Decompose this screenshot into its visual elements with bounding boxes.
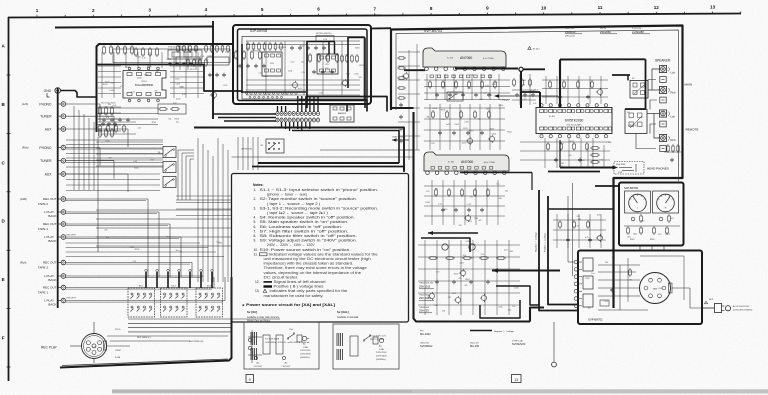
wire bridge B9708 to B9703 bbox=[371, 27, 391, 29]
input terminal AUX Rch bbox=[45, 172, 66, 177]
svg-text:S8: Subsonic filter switch in: S8: Subsonic filter switch in “off” posi… bbox=[260, 234, 358, 238]
svg-text:VR101(L) VR102(R): VR101(L) VR102(R) bbox=[168, 47, 185, 49]
svg-text:PLUG SIDE CON-: PLUG SIDE CON- bbox=[370, 336, 387, 338]
svg-text:C410: C410 bbox=[344, 55, 349, 57]
thick wire regulator loop 1 bbox=[421, 238, 470, 252]
svg-text:9: 9 bbox=[249, 378, 251, 382]
svg-text:10u: 10u bbox=[179, 86, 182, 88]
channel brace labels tape bbox=[20, 197, 76, 300]
svg-text:120V/110V: 120V/110V bbox=[376, 352, 387, 354]
svg-text:0.01: 0.01 bbox=[298, 88, 302, 90]
svg-text:IC101: IC101 bbox=[141, 81, 147, 83]
svg-text:C105: C105 bbox=[223, 85, 228, 87]
svg-text:R502: R502 bbox=[300, 45, 305, 47]
svg-text:2SA / 53: 2SA / 53 bbox=[419, 309, 429, 313]
board-to-board connector CN1 bbox=[276, 112, 320, 123]
svg-text:R502: R502 bbox=[359, 65, 364, 67]
svg-text:2.2k: 2.2k bbox=[597, 214, 601, 216]
svg-text:MA-150: MA-150 bbox=[470, 344, 480, 348]
svg-text:C105: C105 bbox=[604, 301, 609, 303]
svg-text:TAPE 1: TAPE 1 bbox=[38, 227, 48, 231]
svg-text:BACK: BACK bbox=[48, 278, 56, 282]
svg-text:13: 13 bbox=[514, 378, 518, 382]
bus wire tape 2 bbox=[252, 167, 404, 173]
left board bottom edge second line bbox=[62, 359, 228, 366]
svg-text:TAPE 1: TAPE 1 bbox=[38, 290, 48, 294]
svg-text:C105: C105 bbox=[463, 128, 468, 130]
B9708 top bus bbox=[246, 33, 360, 45]
XAL AC line text bbox=[376, 345, 387, 362]
IC101 phono equalizer bbox=[123, 67, 166, 102]
signal arrow line Lch bbox=[494, 94, 558, 98]
bus wire tape 1 bbox=[258, 162, 399, 164]
supply rail positive bbox=[548, 196, 578, 305]
terminal GND bbox=[44, 88, 61, 97]
main preamp board outline bottom bbox=[60, 277, 232, 368]
svg-text:1u/50: 1u/50 bbox=[109, 90, 114, 92]
svg-text:33k: 33k bbox=[168, 119, 171, 121]
svg-text:47k: 47k bbox=[458, 278, 461, 280]
svg-text:2.2k: 2.2k bbox=[608, 142, 612, 144]
wire main thick top horizontal bbox=[55, 27, 213, 28]
tape terminal REC OUT TAPE 2 5 bbox=[38, 260, 66, 269]
svg-text:47k: 47k bbox=[463, 255, 466, 257]
svg-text:47k: 47k bbox=[629, 279, 632, 281]
svg-text:0.22: 0.22 bbox=[291, 61, 295, 63]
svg-text:13: 13 bbox=[710, 4, 716, 9]
svg-text:F: F bbox=[2, 336, 5, 341]
feedback network box bbox=[158, 104, 186, 114]
svg-text:4.: 4. bbox=[254, 216, 257, 220]
svg-text:220: 220 bbox=[577, 216, 580, 218]
scanner shadow bottom bbox=[112, 389, 768, 393]
svg-text:470: 470 bbox=[627, 237, 630, 239]
svg-text:WHT WIRE (R): WHT WIRE (R) bbox=[189, 341, 203, 343]
svg-text:C301: C301 bbox=[471, 244, 476, 246]
phono network resistors bbox=[103, 45, 159, 57]
svg-text:33k: 33k bbox=[499, 198, 502, 200]
thick wire to S5 relay bbox=[612, 75, 630, 80]
svg-text:R901: R901 bbox=[630, 239, 635, 241]
svg-text:0.01: 0.01 bbox=[134, 161, 138, 163]
svg-text:MUTING (MM.DD): MUTING (MM.DD) bbox=[316, 33, 332, 35]
svg-text:1u/50: 1u/50 bbox=[176, 99, 181, 101]
svg-text:8: 8 bbox=[430, 6, 433, 11]
svg-text:470: 470 bbox=[568, 155, 571, 157]
XA AC line text bbox=[300, 343, 311, 360]
svg-text:240V ← 220V ← 110V ← 120V: 240V ← 220V ← 110V ← 120V bbox=[267, 243, 315, 247]
svg-text:indicates that only parts spec: indicates that only parts specified for … bbox=[270, 289, 348, 293]
svg-text:S4: Remote speaker switch in: S4: Remote speaker switch in “off” posit… bbox=[260, 216, 356, 220]
svg-text:manufacturer be used for safet: manufacturer be used for safety. bbox=[264, 294, 324, 298]
svg-text:2SC2060: 2SC2060 bbox=[600, 30, 611, 34]
subsonic filter parts bbox=[309, 53, 339, 74]
tone circuit field mid bbox=[424, 104, 505, 150]
svg-text:R205: R205 bbox=[103, 84, 108, 86]
meter M1 left bbox=[625, 191, 651, 213]
power board SVP-B9702 box bbox=[578, 251, 702, 325]
thick wire regulator loop 2 bbox=[480, 300, 520, 318]
XAL transformer T1 bbox=[337, 333, 358, 360]
svg-text:(Lch TONE): (Lch TONE) bbox=[483, 58, 494, 60]
svg-text:HEAD PHONES: HEAD PHONES bbox=[647, 167, 669, 171]
svg-text:6: 6 bbox=[317, 7, 320, 12]
thick rail under IC301 bbox=[404, 67, 545, 71]
meter M2 right bbox=[653, 191, 679, 213]
svg-text:BACK: BACK bbox=[48, 214, 56, 218]
svg-text:SJP-B9700: SJP-B9700 bbox=[624, 186, 639, 190]
board SJP-B9708 inner box bbox=[242, 37, 364, 100]
chassis ground drop wire bbox=[552, 322, 557, 367]
svg-text:4.7k: 4.7k bbox=[575, 225, 579, 227]
svg-text:R205: R205 bbox=[426, 202, 431, 204]
XA switch S10 bbox=[287, 329, 295, 339]
B9708 parts field bbox=[245, 41, 360, 98]
svg-text:9.: 9. bbox=[254, 239, 257, 243]
wires S1 to bus bbox=[178, 150, 194, 200]
svg-text:2.2k: 2.2k bbox=[444, 209, 448, 211]
bus wire upper 2 bbox=[299, 100, 367, 112]
svg-text:R502: R502 bbox=[666, 233, 671, 235]
svg-text:PLUG: PLUG bbox=[115, 329, 121, 331]
meter board SJP-B9700 box bbox=[619, 183, 684, 246]
transistor legend table bbox=[565, 28, 650, 38]
svg-text:RED WIRE (L): RED WIRE (L) bbox=[137, 337, 151, 339]
svg-text:1u/50: 1u/50 bbox=[446, 124, 451, 126]
plug side note text bbox=[370, 336, 387, 342]
wire tape loop nest bbox=[66, 199, 225, 302]
svg-text:2.2k: 2.2k bbox=[535, 89, 539, 91]
svg-text:R205: R205 bbox=[135, 249, 140, 251]
board SVP-B9703 left jog bbox=[391, 107, 414, 109]
tape terminal PLAY BACK 2 bbox=[44, 210, 66, 219]
ruler tick row top bbox=[37, 11, 741, 17]
svg-text:220: 220 bbox=[179, 251, 182, 253]
svg-text:0.01: 0.01 bbox=[225, 52, 229, 54]
svg-text:0.01: 0.01 bbox=[479, 99, 483, 101]
svg-text:R205: R205 bbox=[147, 66, 152, 68]
svg-text:4.7k: 4.7k bbox=[325, 68, 329, 70]
svg-text:220V/240V (50/60Hz): 220V/240V (50/60Hz) bbox=[733, 309, 753, 311]
svg-text:( tape 1▸2 ← source ← tape 2▸1: ( tape 1▸2 ← source ← tape 2▸1 ) bbox=[267, 211, 328, 215]
svg-text:Lch: Lch bbox=[671, 71, 676, 75]
svg-text:1u/50: 1u/50 bbox=[318, 93, 323, 95]
svg-text:Therefore, there may exist som: Therefore, there may exist some errors i… bbox=[264, 266, 368, 270]
svg-text:2-2SD288: 2-2SD288 bbox=[632, 30, 644, 34]
svg-text:10u: 10u bbox=[477, 118, 480, 120]
svg-text:0.22: 0.22 bbox=[246, 47, 250, 49]
svg-text:C301: C301 bbox=[658, 288, 663, 290]
switch S2 monitor bbox=[241, 139, 284, 153]
fuse and AC cord exit bbox=[702, 299, 714, 308]
for XA label bbox=[247, 310, 280, 322]
relay S4 remote speaker box bbox=[625, 110, 647, 134]
svg-text:2.2k: 2.2k bbox=[301, 72, 305, 74]
svg-text:220V/240V: 220V/240V bbox=[376, 356, 387, 358]
svg-text:4: 4 bbox=[205, 7, 208, 12]
svg-text:220V/240V: 220V/240V bbox=[300, 354, 311, 356]
left edge ticks bbox=[7, 75, 11, 367]
svg-text:4.7k: 4.7k bbox=[323, 39, 327, 41]
svg-text:(Rch): (Rch) bbox=[20, 261, 26, 265]
svg-text:C301: C301 bbox=[504, 100, 509, 102]
mid area horizontal wires bbox=[66, 142, 231, 216]
speaker terminal Lch REMOTE bbox=[660, 110, 676, 119]
svg-text:1u/50: 1u/50 bbox=[462, 142, 467, 144]
svg-text:2SA1123: 2SA1123 bbox=[565, 30, 576, 34]
bus wire upper 3 bbox=[306, 97, 387, 112]
svg-text:S3-2: S3-2 bbox=[171, 286, 176, 288]
svg-text:C410: C410 bbox=[129, 247, 134, 249]
svg-text:2SC1n: 2SC1n bbox=[600, 28, 606, 30]
svg-text:47k: 47k bbox=[191, 66, 194, 68]
svg-text:R:L SIGN WIRE: R:L SIGN WIRE bbox=[265, 339, 280, 341]
svg-text:AN7060: AN7060 bbox=[460, 56, 472, 60]
svg-text:C301: C301 bbox=[522, 80, 527, 82]
svg-text:0.22: 0.22 bbox=[259, 73, 263, 75]
pre IC401 parts bbox=[512, 74, 536, 105]
svg-text:2: 2 bbox=[92, 8, 95, 13]
tape terminal PLAY BACK 8 bbox=[44, 298, 66, 307]
svg-text:33k: 33k bbox=[426, 117, 429, 119]
IC351 pin squares bbox=[431, 167, 493, 170]
svg-text:33k: 33k bbox=[108, 104, 111, 106]
svg-text:R310: R310 bbox=[167, 59, 172, 61]
svg-text:R101: R101 bbox=[441, 109, 446, 111]
headphone jack bbox=[613, 162, 645, 175]
svg-text:470: 470 bbox=[641, 220, 644, 222]
wire gnd lead bbox=[61, 91, 97, 98]
supply rail negative bbox=[539, 190, 578, 311]
svg-text:4.7k: 4.7k bbox=[113, 105, 117, 107]
svg-text:R310: R310 bbox=[282, 47, 287, 49]
svg-text:100k: 100k bbox=[633, 234, 637, 236]
output inductor parts bbox=[588, 145, 604, 168]
svg-text:F601: F601 bbox=[709, 299, 713, 301]
svg-text:S10: Power source switch in “: S10: Power source switch in “on” positio… bbox=[260, 248, 351, 252]
svg-text:1.: 1. bbox=[254, 188, 257, 192]
IC muting 1 bbox=[262, 52, 282, 76]
svg-text:(REMOTE): (REMOTE) bbox=[628, 125, 637, 127]
svg-text:13.: 13. bbox=[255, 289, 260, 293]
svg-text:1u/50: 1u/50 bbox=[105, 140, 110, 142]
svg-text:RED WTH: RED WTH bbox=[67, 235, 77, 237]
svg-text:3.: 3. bbox=[254, 206, 257, 210]
svg-text:REC OUT: REC OUT bbox=[43, 261, 57, 265]
svg-text:SVOS2V20: SVOS2V20 bbox=[512, 342, 526, 346]
svg-text:TUNER: TUNER bbox=[40, 115, 52, 119]
bus wire upper 1 bbox=[292, 104, 347, 112]
wire thick phono feed bbox=[97, 65, 243, 92]
svg-text:R101: R101 bbox=[134, 167, 139, 169]
svg-text:R310: R310 bbox=[499, 105, 504, 107]
page number 13 box bbox=[512, 375, 522, 383]
svg-text:4.7k: 4.7k bbox=[469, 221, 473, 223]
svg-text:REC PLAY: REC PLAY bbox=[41, 346, 58, 350]
svg-text:2.2k: 2.2k bbox=[599, 159, 603, 161]
svg-text:R101: R101 bbox=[452, 293, 457, 295]
speaker minus lugs bbox=[660, 77, 666, 152]
svg-text:4.7k: 4.7k bbox=[120, 86, 124, 88]
input terminal TUNER Lch bbox=[40, 114, 66, 119]
IC351 AN7060 Rch bbox=[424, 152, 509, 175]
svg-text:2.2k: 2.2k bbox=[508, 310, 512, 312]
IC301 AN7060 Lch bbox=[423, 48, 506, 71]
svg-text:SVP-B9702: SVP-B9702 bbox=[588, 318, 603, 322]
svg-text:C105: C105 bbox=[488, 95, 493, 97]
svg-text:470: 470 bbox=[467, 88, 470, 90]
B9708 thick bus center bbox=[306, 41, 308, 108]
board part numbers bottom bbox=[420, 331, 526, 349]
board SJP-B9708 second box bbox=[238, 29, 368, 101]
svg-text:LEAD WIRE: LEAD WIRE bbox=[392, 136, 404, 139]
XA plug bbox=[297, 335, 309, 342]
IC301 pin squares bbox=[430, 75, 492, 78]
svg-text:C105: C105 bbox=[580, 160, 585, 162]
headphone feed wires bbox=[548, 140, 613, 172]
svg-text:S5: Main speaker switch in “o: S5: Main speaker switch in “on” position… bbox=[260, 220, 349, 224]
svg-text:220: 220 bbox=[358, 77, 361, 79]
svg-text:C301: C301 bbox=[175, 78, 180, 80]
connector feed lines left bbox=[213, 114, 276, 121]
svg-text:10u: 10u bbox=[496, 184, 499, 186]
svg-text:TR601, 603, 605: TR601, 603, 605 bbox=[419, 283, 433, 285]
svg-text:33k: 33k bbox=[434, 305, 437, 307]
svg-text:10u: 10u bbox=[176, 121, 179, 123]
transistor type labels bbox=[419, 283, 434, 313]
svg-text:R101: R101 bbox=[570, 141, 575, 143]
svg-text:47k: 47k bbox=[106, 237, 109, 239]
svg-text:220: 220 bbox=[442, 310, 445, 312]
speaker wires bbox=[636, 69, 660, 149]
svg-text:5: 5 bbox=[261, 7, 264, 12]
switch group S3-2 bbox=[161, 286, 188, 318]
switch group S3-1 bbox=[128, 286, 155, 318]
svg-text:(Rch TONE): (Rch TONE) bbox=[484, 162, 495, 164]
svg-text:IC 301: IC 301 bbox=[447, 58, 454, 60]
svg-text:S1-1 ~ S1-3: Input selector s: S1-1 ~ S1-3: Input selector switch in “p… bbox=[260, 188, 379, 192]
svg-text:TWIST: TWIST bbox=[115, 350, 122, 352]
svg-text:10u: 10u bbox=[505, 190, 508, 192]
svg-text:Lch: Lch bbox=[671, 115, 676, 119]
svg-text:Negative ( − ) voltage: Negative ( − ) voltage bbox=[494, 330, 515, 333]
svg-text:0.22: 0.22 bbox=[468, 204, 472, 206]
loudness switch block bbox=[447, 92, 463, 101]
svg-text:C105: C105 bbox=[522, 99, 527, 101]
svg-text:LINE: LINE bbox=[379, 349, 384, 351]
notes numbered lines bbox=[254, 188, 379, 252]
svg-text:BACK: BACK bbox=[48, 239, 56, 243]
phono input network box bbox=[113, 49, 230, 63]
B9708 thick bus left bbox=[241, 44, 306, 93]
bus wire lower 1 bbox=[194, 128, 404, 171]
thick feed to power board bbox=[548, 208, 614, 210]
thick wire regulator feed bbox=[496, 286, 539, 305]
svg-text:100k: 100k bbox=[485, 86, 489, 88]
relay S5 main speaker box bbox=[630, 78, 648, 98]
main preamp board outline top bbox=[97, 44, 234, 132]
svg-text:C301: C301 bbox=[150, 159, 155, 161]
B+ rail to relays bbox=[560, 58, 646, 60]
svg-text:2SB / 2SD: 2SB / 2SD bbox=[565, 28, 575, 30]
svg-text:impedance) with the chassis ta: impedance) with the chassis taken as sta… bbox=[264, 262, 354, 266]
svg-text:9: 9 bbox=[486, 6, 489, 11]
svg-text:AN7060: AN7060 bbox=[461, 160, 473, 164]
svg-text:AC: AC bbox=[303, 343, 306, 346]
thick drop from rail junction bbox=[520, 72, 522, 109]
svg-text:R205: R205 bbox=[254, 51, 259, 53]
input terminal AUX Lch bbox=[45, 127, 66, 132]
speaker terminal Rch REMOTE bbox=[660, 134, 676, 142]
svg-text:for [XAL]: for [XAL] bbox=[337, 310, 349, 314]
svg-text:SVOSRH2: SVOSRH2 bbox=[420, 344, 433, 348]
svg-text:220: 220 bbox=[670, 218, 673, 220]
protection circuit cluster bbox=[553, 214, 606, 248]
svg-text:R502: R502 bbox=[166, 237, 171, 239]
wire lead wire arrow bbox=[392, 136, 409, 142]
note 11 voltage text bbox=[254, 252, 378, 279]
left input RC parts bbox=[99, 106, 117, 138]
switch S1-1 bbox=[163, 147, 176, 158]
svg-text:6.: 6. bbox=[254, 225, 257, 229]
svg-text:12.: 12. bbox=[255, 280, 260, 284]
svg-text:Rch: Rch bbox=[671, 138, 676, 142]
svg-text:1u/50: 1u/50 bbox=[460, 271, 465, 273]
svg-text:S2: Tape monitor switch in “s: S2: Tape monitor switch in “source” posi… bbox=[260, 197, 358, 201]
channel labels Lch Rch bbox=[22, 102, 29, 150]
connector stubs down bbox=[282, 122, 310, 131]
mute cluster upper bbox=[176, 44, 200, 70]
input terminal TUNER Rch bbox=[40, 158, 66, 163]
svg-text:MA-1062: MA-1062 bbox=[420, 332, 431, 336]
svg-text:100k: 100k bbox=[498, 306, 502, 308]
VR101 trim box bbox=[168, 50, 202, 59]
rail under IC351 bbox=[460, 173, 532, 191]
board SJP-B9708 outer box bbox=[233, 25, 371, 104]
svg-text:C103: C103 bbox=[125, 67, 130, 69]
page number 9 box bbox=[246, 375, 254, 383]
svg-text:R205: R205 bbox=[486, 108, 491, 110]
lower filter cluster left bbox=[98, 118, 136, 134]
svg-text:C410: C410 bbox=[559, 143, 564, 145]
svg-text:1u/50: 1u/50 bbox=[137, 77, 142, 79]
svg-text:2SA 1013: 2SA 1013 bbox=[419, 285, 431, 289]
input terminal PHONO Rch bbox=[39, 145, 65, 150]
svg-text:SPEAKER: SPEAKER bbox=[655, 59, 671, 63]
svg-text:470: 470 bbox=[471, 258, 474, 260]
svg-text:11.: 11. bbox=[254, 252, 258, 256]
svg-text:C105: C105 bbox=[465, 241, 470, 243]
svg-text:REMOTE: REMOTE bbox=[686, 128, 699, 132]
svg-text:470: 470 bbox=[435, 188, 438, 190]
svg-text:R101 R103 R105 R107 C101: R101 R103 R105 R107 C101 bbox=[101, 44, 126, 46]
svg-text:100k: 100k bbox=[288, 71, 292, 73]
tape terminal PLAY BACK 6 bbox=[44, 274, 66, 283]
upper parts row right of VR bbox=[168, 44, 229, 66]
svg-text:0.22: 0.22 bbox=[438, 204, 442, 206]
svg-text:values, depending on the inter: values, depending on the internal impeda… bbox=[264, 271, 362, 275]
output stage field bbox=[520, 138, 610, 168]
svg-text:S3-3: S3-3 bbox=[207, 286, 212, 288]
svg-text:B1 40.2: B1 40.2 bbox=[533, 49, 540, 51]
svg-text:S-GM: S-GM bbox=[115, 357, 121, 359]
board SVP-B9703 inner thin outline bbox=[396, 30, 679, 181]
svg-text:47k: 47k bbox=[599, 236, 602, 238]
svg-text:(SVI PLUS AMP): (SVI PLUS AMP) bbox=[566, 124, 581, 127]
svg-text:0.22: 0.22 bbox=[137, 127, 141, 129]
svg-text:REC OUT: REC OUT bbox=[43, 286, 57, 290]
svg-text:PHONO: PHONO bbox=[39, 102, 52, 106]
